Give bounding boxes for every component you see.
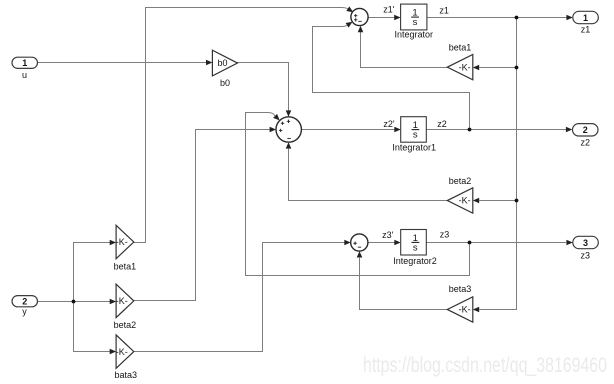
wire: beta2 right output to sum2 bottom — [289, 149, 448, 201]
wire: z1 branch to beta2 right input — [479, 200, 516, 202]
arrowhead into sum1 bottom (pointing up) — [358, 26, 364, 32]
wire: Integrator1 output z2 to outport 2 — [426, 129, 566, 131]
svg-text:-K-: -K- — [116, 296, 128, 306]
inport 2 (y) — [12, 296, 38, 307]
gain b0 — [212, 50, 237, 76]
wire: inport u to gain b0 — [38, 62, 208, 64]
svg-text:-K-: -K- — [459, 305, 471, 315]
arrowhead into beta2 left — [110, 299, 116, 305]
svg-text:beta3: beta3 — [449, 284, 472, 294]
wire: inport y to gain beta2 left — [38, 301, 111, 303]
svg-text:Integrator2: Integrator2 — [393, 256, 437, 266]
wire: z1 branch to beta1 right input — [479, 67, 516, 69]
wire: Integrator2 output z3 to outport 3 — [426, 242, 566, 244]
arrowhead into outport 3 — [566, 240, 572, 246]
svg-text:s: s — [413, 130, 418, 141]
arrowhead into beta1 right — [473, 65, 479, 71]
arrowhead into sum2 bottom (pointing up) — [286, 142, 292, 148]
svg-text:-K-: -K- — [459, 62, 471, 72]
arrowhead into sum3 west — [344, 240, 350, 246]
arrowhead into sum2 west — [270, 127, 276, 133]
gain beta1 (left column) — [116, 225, 134, 258]
junction at beta1 right branch — [515, 66, 519, 70]
wire: beta3 left output to sum3 west — [134, 243, 345, 352]
arrowhead into Integrator1 — [394, 127, 400, 133]
arrowhead into sum1 NW (pointing SE) — [346, 6, 353, 12]
wire: beta2 left output to sum2 west — [134, 130, 271, 301]
junction on z2 wire — [468, 128, 472, 132]
integrator block "Integrator2" — [401, 230, 427, 256]
svg-text:z1: z1 — [439, 6, 449, 16]
arrowhead into Integrator — [394, 15, 400, 21]
svg-text:-K-: -K- — [116, 237, 128, 247]
svg-text:z3: z3 — [440, 229, 450, 239]
arrowhead into beta2 right — [473, 198, 479, 204]
svg-text:b0: b0 — [220, 78, 230, 88]
svg-text:beta1: beta1 — [114, 262, 137, 272]
svg-text:y: y — [22, 307, 27, 317]
svg-text:s: s — [413, 242, 418, 253]
svg-text:bata3: bata3 — [115, 370, 138, 380]
junction at beta2 right branch — [515, 199, 519, 203]
inport 1 (u) — [12, 57, 38, 68]
svg-text:beta2: beta2 — [114, 320, 137, 330]
wire: beta3 right output to sum3 bottom — [360, 258, 448, 310]
svg-text:https://blog.csdn.net/qq_38169: https://blog.csdn.net/qq_38169460 — [363, 354, 607, 377]
arrowhead into sum1 SW (pointing NE) — [346, 22, 353, 28]
sum S2 (center) — [276, 117, 301, 142]
wire: z3 return to sum2 NW — [246, 113, 470, 276]
sum S3 (bottom) — [351, 234, 368, 251]
wire: z2 return to sum1 SW — [313, 25, 470, 129]
svg-text:z1': z1' — [383, 5, 395, 15]
wire: beta1 right output to sum1 bottom — [361, 32, 448, 68]
junction on y wire — [72, 300, 76, 304]
junction on z3 wire — [468, 241, 472, 245]
arrowhead into outport 2 — [566, 127, 572, 133]
svg-text:u: u — [22, 70, 27, 80]
svg-text:2: 2 — [583, 125, 588, 135]
wire: Integrator output z1 to outport 1 — [427, 17, 567, 19]
svg-text:1: 1 — [583, 13, 588, 23]
arrowhead into b0 — [206, 60, 212, 66]
wire: y branch down to beta3 left — [74, 302, 111, 352]
svg-text:3: 3 — [583, 238, 588, 248]
sum S1 (top) — [351, 8, 368, 25]
svg-text:b0: b0 — [217, 58, 227, 68]
wire: y branch up to beta1 left — [74, 243, 111, 302]
wire: sum1 output z1' to Integrator — [368, 17, 395, 19]
svg-text:beta2: beta2 — [449, 176, 472, 186]
svg-text:-K-: -K- — [459, 196, 471, 206]
svg-text:beta1: beta1 — [449, 43, 472, 53]
integrator block "Integrator" — [401, 4, 427, 30]
integrator block "Integrator1" — [401, 117, 427, 143]
wire: b0 output to sum2 top — [238, 63, 289, 111]
outport 2 (z2) — [573, 124, 599, 136]
gain beta2 (left column) — [116, 284, 134, 317]
svg-text:z3: z3 — [581, 250, 591, 260]
arrowhead into beta3 left — [110, 349, 116, 355]
gain beta2 (right column, pointing left) — [447, 188, 473, 213]
arrowhead into sum3 bottom (pointing up) — [357, 251, 363, 257]
arrowhead into beta1 left — [110, 240, 116, 246]
svg-text:-K-: -K- — [116, 347, 128, 357]
svg-text:Integrator: Integrator — [395, 30, 434, 40]
arrowhead into sum2 top — [286, 110, 292, 116]
svg-text:z3': z3' — [382, 230, 394, 240]
svg-text:z1: z1 — [581, 25, 591, 35]
arrowhead into Integrator2 — [394, 240, 400, 246]
svg-text:2: 2 — [22, 297, 27, 307]
wire: z1 feedback vertical down to beta3 right — [479, 18, 516, 310]
svg-text:1: 1 — [22, 58, 27, 68]
arrowhead into beta3 right — [473, 307, 479, 313]
svg-text:z2': z2' — [383, 119, 395, 129]
gain beta3 (right column, pointing left) — [447, 297, 473, 322]
svg-text:z2: z2 — [581, 137, 591, 147]
junction on z1 wire — [515, 16, 519, 20]
outport 3 (z3) — [573, 236, 599, 248]
wire: beta1 left output up and across to sum1 NW — [134, 8, 348, 243]
gain beta1 (right column, pointing left) — [447, 55, 473, 80]
arrowhead into outport 1 — [566, 15, 572, 21]
gain bata3 (left column) — [116, 335, 134, 368]
outport 1 (z1) — [573, 11, 599, 23]
wire: sum3 output z3' to Integrator2 — [368, 242, 395, 244]
svg-text:Integrator1: Integrator1 — [392, 143, 436, 153]
arrowhead into sum2 NW (pointing SE) — [273, 114, 280, 121]
wire: sum2 output z2' to Integrator1 — [301, 129, 395, 131]
svg-text:z2: z2 — [437, 119, 447, 129]
svg-text:s: s — [413, 17, 418, 28]
